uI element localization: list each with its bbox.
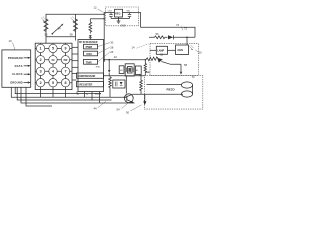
osc bus line: [104, 75, 145, 77]
svg-text:2: 2: [40, 81, 42, 85]
ground arrow: [143, 94, 146, 105]
controller IC 24: [78, 40, 104, 92]
bus wire D: [21, 87, 135, 103]
svg-text:COMPRESSOR: COMPRESSOR: [77, 75, 95, 78]
compressor block: [77, 73, 104, 78]
svg-text:DATA: DATA: [15, 64, 23, 68]
tank circuit box: [113, 80, 125, 88]
photoresistor 36: [41, 17, 48, 37]
keypad box 16: [35, 43, 72, 89]
ground rail in regulator: [111, 17, 130, 21]
piezo element: [147, 82, 193, 97]
resistor at oscillator: [109, 76, 112, 98]
svg-text:12: 12: [94, 6, 98, 10]
label 26: [98, 50, 114, 62]
capacitor C1: [109, 13, 112, 19]
resistor 56 and diode line: [149, 32, 195, 40]
svg-text:REGISTER: REGISTER: [80, 84, 93, 87]
bus wire C: [17, 87, 111, 100]
main vdd rail vertical: [103, 13, 105, 63]
svg-text:GND: GND: [121, 26, 126, 28]
horn unit dashed box 74: [150, 44, 198, 76]
pullup resistor: [140, 76, 143, 95]
regulator wires: [104, 13, 140, 28]
svg-text:56: 56: [156, 32, 160, 36]
pwr block: [84, 44, 98, 49]
sense loop top wire: [46, 14, 104, 43]
svg-text:PWR: PWR: [86, 45, 93, 49]
svg-text:4: 4: [52, 70, 54, 74]
bus wire A: [15, 87, 101, 93]
loop bottom wire: [46, 36, 76, 38]
regulator REG: [108, 9, 130, 17]
resistor into horn unit: [146, 52, 181, 64]
keypad column drops: [41, 90, 66, 98]
keypad row wires: [35, 48, 72, 82]
diode D2: [157, 58, 163, 63]
label 10 leader: [9, 39, 16, 50]
svg-text:72: 72: [184, 26, 188, 30]
svg-text:CLOCK: CLOCK: [12, 72, 23, 76]
bus wire B: [11, 87, 127, 97]
label 20: [196, 50, 203, 55]
vdd wire to resistor: [104, 59, 146, 61]
vss arrow into piezo unit: [180, 63, 188, 75]
label 50: [126, 105, 142, 115]
resistor to osc bus: [144, 60, 146, 76]
svg-text:8: 8: [65, 81, 67, 85]
ground symbol: [117, 21, 121, 23]
svg-text:3: 3: [40, 70, 42, 74]
svg-text:54: 54: [117, 108, 121, 112]
svg-text:74: 74: [176, 23, 180, 27]
svg-text:RXD: RXD: [96, 66, 101, 68]
right loop wire: [75, 14, 77, 40]
lamp box: [150, 46, 168, 54]
keypad column wires: [41, 43, 66, 89]
svg-text:GEN: GEN: [178, 49, 184, 52]
down arrow 22: [108, 55, 117, 76]
svg-text:44: 44: [94, 107, 98, 111]
bottom pins: [77, 92, 99, 104]
svg-text:28: 28: [110, 45, 114, 49]
diode D1: [168, 35, 173, 39]
svg-text:34: 34: [58, 27, 62, 31]
label 14: [132, 44, 149, 50]
label 54: [117, 104, 128, 112]
register block: [77, 82, 104, 87]
power wire to horn unit: [141, 27, 196, 37]
svg-text:OSC: OSC: [86, 52, 92, 56]
piezo dashed box 76: [144, 75, 203, 109]
svg-text:50: 50: [126, 111, 130, 115]
svg-text:5: 5: [52, 47, 54, 51]
label 12: [94, 6, 104, 13]
svg-text:REG: REG: [115, 12, 120, 15]
svg-text:PROGRAM: PROGRAM: [8, 56, 23, 60]
svg-text:62: 62: [160, 52, 164, 56]
left pins: [72, 47, 78, 80]
svg-text:38: 38: [70, 32, 74, 36]
svg-text:26: 26: [110, 50, 114, 54]
light emission arrows: [190, 45, 194, 50]
svg-text:OUT: OUT: [95, 94, 101, 96]
label 44: [94, 101, 107, 110]
svg-text:58: 58: [184, 63, 188, 67]
crystal box: [125, 64, 134, 76]
svg-text:VR: VR: [120, 70, 123, 72]
timer block: [84, 59, 98, 64]
base feed wire: [125, 76, 127, 94]
arrow CLOCK: [24, 73, 31, 75]
resistor to IC top: [89, 19, 104, 40]
svg-text:22: 22: [114, 55, 118, 59]
svg-text:36: 36: [44, 32, 48, 36]
label 28: [98, 45, 114, 53]
svg-text:1: 1: [40, 47, 42, 51]
svg-text:TMR: TMR: [86, 61, 92, 65]
svg-text:30: 30: [110, 41, 114, 45]
key switch circles: [36, 44, 69, 87]
arrow DATA: [24, 65, 31, 67]
svg-text:GROUND: GROUND: [10, 81, 23, 85]
svg-text:RF ID RECEIVER: RF ID RECEIVER: [79, 42, 98, 44]
programmer box 10: [2, 50, 31, 87]
collector line to piezo: [132, 93, 183, 95]
arrow PROGRAM: [24, 57, 31, 59]
svg-text:70: 70: [192, 75, 196, 79]
svg-text:PIEZO: PIEZO: [167, 87, 175, 91]
svg-text:9: 9: [65, 47, 67, 51]
key digits: [40, 47, 69, 85]
filter box: [135, 66, 141, 75]
osc block: [84, 51, 98, 56]
transistor Q1: [124, 94, 135, 103]
capacitor C2: [128, 13, 131, 19]
label 30: [98, 41, 114, 47]
svg-text:7: 7: [65, 70, 67, 74]
regulator dashed box 12: [106, 7, 139, 26]
switch arm 34: [52, 24, 64, 35]
svg-text:2: 2: [40, 58, 42, 62]
generator box: [168, 37, 189, 54]
photoresistor 38: [70, 17, 78, 37]
bus wire E: [26, 87, 52, 106]
svg-text:20: 20: [199, 51, 203, 55]
svg-text:14: 14: [132, 46, 136, 50]
svg-text:GND: GND: [145, 72, 150, 74]
svg-text:5: 5: [52, 81, 54, 85]
trim box: [119, 66, 124, 74]
svg-text:10: 10: [9, 39, 13, 43]
arrow GROUND: [24, 81, 31, 83]
